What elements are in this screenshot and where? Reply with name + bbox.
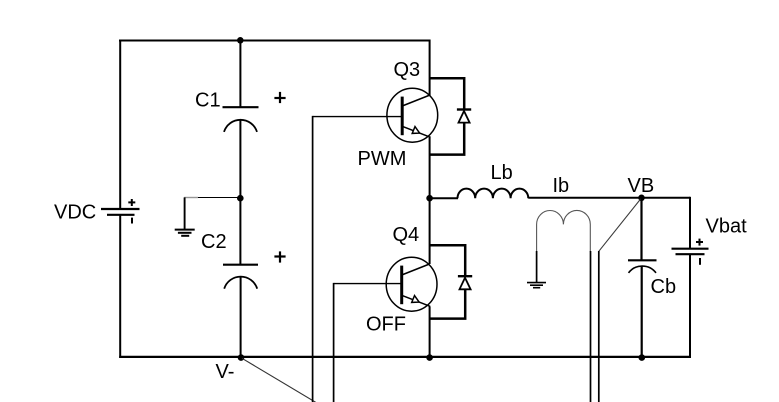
pointer wire from VB node bbox=[599, 199, 641, 252]
svg-text:C1: C1 bbox=[195, 90, 221, 112]
wire bottom rail bbox=[119, 356, 691, 358]
ground G1 bbox=[175, 230, 195, 236]
wire C1 bottom lead bbox=[239, 120, 241, 198]
wire Q3 collector drop bbox=[429, 40, 431, 97]
svg-text:VDC: VDC bbox=[54, 202, 96, 224]
svg-text:Ib: Ib bbox=[553, 175, 570, 197]
wire Q3 gate drop bbox=[312, 116, 314, 402]
capacitor Cb bbox=[628, 260, 657, 273]
inductor Lb bbox=[458, 189, 529, 199]
probe lead from VB bbox=[598, 251, 600, 402]
battery VDC bbox=[101, 199, 140, 224]
wire Q3 emitter drop bbox=[429, 137, 431, 198]
node VB bbox=[638, 195, 645, 202]
plus sign C1 bbox=[274, 92, 285, 103]
wire Q4 collector drop bbox=[429, 198, 431, 264]
node half-bridge midpoint bbox=[426, 195, 433, 202]
node V- bbox=[238, 354, 245, 361]
wire ground branch stem bbox=[184, 197, 186, 229]
node C1-C2 midpoint bbox=[237, 195, 244, 202]
transistor Q3 bbox=[387, 88, 438, 142]
wire Q4 gate drop bbox=[333, 283, 335, 402]
diode D3 branch bbox=[429, 78, 464, 154]
capacitor C1 bbox=[223, 107, 259, 132]
wire left rail upper bbox=[119, 40, 121, 210]
wire Q3 base lead horizontal bbox=[313, 116, 402, 118]
node Cb bottom bbox=[639, 354, 646, 361]
battery Vbat bbox=[672, 239, 709, 265]
transistor Q4 bbox=[386, 257, 437, 311]
wire midpoint to inductor bbox=[430, 197, 458, 199]
svg-text:Lb: Lb bbox=[491, 162, 513, 184]
wire Vbat bottom lead bbox=[689, 254, 691, 358]
pointer wire from V- node bbox=[242, 358, 316, 402]
wire Cb bottom lead bbox=[641, 266, 643, 358]
svg-text:PWM: PWM bbox=[358, 148, 407, 170]
diode D3 bbox=[457, 110, 471, 123]
wire Vbat top drop bbox=[689, 197, 691, 249]
wire C2 top lead bbox=[239, 198, 241, 264]
wire top rail bbox=[119, 40, 431, 42]
wire C1 top lead bbox=[239, 40, 241, 107]
wire C2 bottom lead bbox=[240, 276, 242, 358]
svg-text:Cb: Cb bbox=[651, 276, 677, 298]
svg-text:V-: V- bbox=[216, 361, 235, 383]
svg-text:C2: C2 bbox=[201, 231, 227, 253]
svg-text:Q3: Q3 bbox=[394, 59, 421, 81]
svg-text:Vbat: Vbat bbox=[706, 216, 748, 238]
capacitor C2 bbox=[223, 265, 258, 289]
ground G2 bbox=[527, 283, 546, 288]
probe lead left to ground bbox=[536, 251, 538, 283]
probe lead right bbox=[590, 251, 592, 402]
node Q4 emitter / bottom rail bbox=[426, 354, 433, 361]
wire ground branch horizontal bbox=[198, 197, 241, 199]
wire left rail lower bbox=[119, 215, 121, 358]
svg-text:OFF: OFF bbox=[366, 313, 406, 335]
diode D4 branch bbox=[429, 245, 465, 318]
wire Cb top lead bbox=[640, 198, 642, 260]
wire inductor to Vbat corner bbox=[528, 197, 690, 199]
wire Q4 emitter drop bbox=[429, 306, 431, 358]
wire Q4 base lead horizontal bbox=[334, 283, 402, 285]
plus sign C2 bbox=[274, 251, 285, 262]
svg-text:VB: VB bbox=[628, 175, 655, 197]
diode D4 bbox=[458, 276, 472, 289]
node top rail / C1 bbox=[237, 37, 244, 44]
current probe Ib loop bbox=[537, 210, 591, 251]
svg-text:Q4: Q4 bbox=[393, 224, 420, 246]
